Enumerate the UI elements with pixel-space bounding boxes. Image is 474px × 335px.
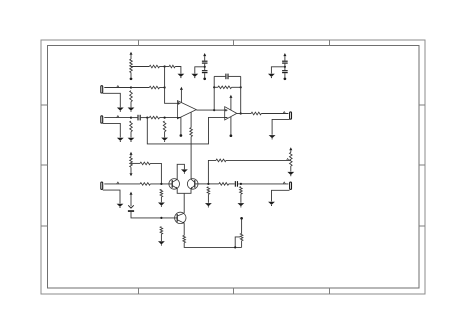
- wire: [160, 197, 162, 202]
- wire Q1 emitter: [177, 188, 184, 193]
- wire W1: [208, 160, 216, 184]
- node U2 out: [240, 112, 242, 114]
- net stub U2 V-: [230, 134, 233, 137]
- wire Q1 collector: [177, 164, 184, 179]
- sheet border inner: [48, 46, 420, 289]
- wire: [160, 87, 165, 89]
- net stub U1 V-: [180, 134, 183, 137]
- capacitor C8: [235, 181, 238, 187]
- wire: [229, 183, 235, 185]
- transistor Q1: [169, 179, 180, 190]
- node D: [164, 117, 166, 119]
- wire: [240, 76, 242, 113]
- U1 V- pin: [180, 117, 182, 134]
- capacitor C7 plate+: [128, 205, 134, 208]
- wire: [147, 117, 149, 119]
- wire: [204, 64, 206, 70]
- ground J3 sleeve: [269, 135, 276, 139]
- resistor R13/R14: [290, 153, 293, 167]
- resistor R22: [160, 227, 163, 235]
- op-amp U1: [177, 101, 196, 119]
- wire: [160, 234, 162, 241]
- resistor R19: [160, 189, 163, 197]
- net stub V- (R2): [130, 77, 133, 80]
- net stub V-: [284, 77, 287, 80]
- wire: [229, 75, 241, 77]
- net stub V-: [203, 77, 206, 80]
- resistor R5: [149, 65, 159, 68]
- U2 V- pin: [230, 117, 232, 135]
- J1 tip contact: [117, 86, 119, 88]
- wire emitter to pot: [184, 243, 241, 248]
- wire: [208, 183, 219, 185]
- ground J2 sleeve: [117, 138, 124, 142]
- wire Q2 emitter: [184, 189, 191, 194]
- power arrow U2 V+: [229, 95, 232, 98]
- node C: [146, 117, 148, 119]
- node C1-C2: [204, 66, 206, 68]
- wire: [214, 75, 225, 77]
- ground J1 sleeve: [117, 108, 124, 112]
- resistor R3: [130, 91, 133, 102]
- resistor R11: [218, 86, 232, 89]
- wire: [290, 166, 292, 172]
- wire: [131, 117, 137, 119]
- wire J5 sleeve: [272, 190, 290, 201]
- wire: [131, 87, 149, 89]
- resistor R4: [130, 121, 133, 132]
- resistor R6: [169, 65, 175, 68]
- wire row1 bias: [131, 66, 149, 68]
- J2 tip contact: [117, 116, 119, 118]
- node A: [164, 65, 166, 67]
- W1 contact mark: [287, 159, 289, 161]
- wire: [190, 112, 192, 127]
- wire to ground: [271, 67, 285, 74]
- wire: [238, 183, 288, 185]
- wire pot wiper: [235, 237, 240, 248]
- ground R20: [205, 203, 212, 207]
- ground Q1 collector: [181, 169, 188, 173]
- power arrow V+ (R1 top): [130, 52, 133, 55]
- wire: [160, 66, 165, 68]
- connector J3 (output jack): [290, 112, 292, 119]
- wire: [150, 163, 161, 184]
- ground J4 sleeve: [117, 204, 124, 208]
- wire: [241, 241, 243, 248]
- resistor R25: [216, 159, 226, 162]
- capacitor C6: [225, 74, 228, 80]
- power arrow V+ (R15): [130, 152, 133, 155]
- connector J1 (input jack 1): [101, 86, 103, 93]
- U1 -in mark: [177, 117, 180, 119]
- wire: [232, 86, 241, 88]
- wire J3 sleeve: [272, 119, 289, 134]
- wire: [204, 56, 206, 60]
- resistor R26: [219, 183, 229, 186]
- wire: [130, 73, 132, 78]
- node B: [164, 86, 166, 88]
- resistor R8: [149, 116, 159, 119]
- potentiometer R24: [240, 233, 243, 240]
- wire to Q2 collector: [190, 137, 192, 180]
- resistor R17: [140, 162, 150, 165]
- U1 +in mark: [177, 102, 180, 105]
- node Q1 base: [160, 183, 162, 185]
- power arrow V+ (R13): [289, 147, 292, 150]
- node C3-C4: [284, 66, 286, 68]
- wire: [290, 150, 292, 152]
- wire J2 tip: [104, 117, 131, 119]
- wire: [204, 73, 206, 77]
- transistor Q2: [187, 179, 198, 190]
- arrow R16 down: [130, 173, 133, 176]
- capacitor C3: [282, 61, 288, 64]
- wire to ground: [195, 67, 205, 74]
- wire: [241, 219, 243, 233]
- ground R4: [128, 138, 135, 142]
- wire feedback loop: [147, 117, 224, 143]
- wire J4 sleeve: [103, 190, 120, 203]
- connector J5 (jack 4): [290, 182, 292, 189]
- power arrow V+ (C1): [203, 53, 206, 56]
- power arrow U1 V+: [180, 87, 183, 90]
- J5 tip contact: [283, 182, 285, 184]
- power arrow V+ (C3): [283, 53, 286, 56]
- wire: [207, 194, 209, 203]
- resistor R20: [207, 187, 210, 195]
- ground R14: [287, 172, 294, 176]
- node U1 out: [213, 109, 215, 111]
- resistor R12: [251, 112, 261, 115]
- connector J4 (input jack 3): [101, 182, 103, 189]
- resistor R23: [183, 235, 186, 242]
- wire: [240, 194, 242, 203]
- wire emitters join: [183, 193, 185, 213]
- capacitor C1: [202, 61, 208, 64]
- resistor R18: [140, 183, 150, 186]
- U2 V+ pin: [230, 98, 232, 110]
- node J1-R junction: [130, 86, 132, 88]
- ground R9: [161, 138, 168, 142]
- wire: [130, 167, 132, 173]
- wire: [164, 132, 166, 138]
- U1 V+ pin: [180, 90, 182, 103]
- ground C3-C4: [268, 74, 275, 78]
- ground R21: [238, 203, 245, 207]
- wire: [130, 195, 132, 207]
- wire to -in: [160, 117, 178, 119]
- ground R3: [128, 108, 135, 112]
- wire to Q1 base: [150, 183, 172, 185]
- wire: [213, 76, 215, 110]
- node: [213, 86, 215, 88]
- wire: [130, 132, 132, 138]
- node Q3 base: [160, 217, 162, 219]
- ground J5 sleeve: [268, 202, 275, 206]
- connector J2 (input jack 2): [101, 116, 103, 123]
- wire row3 bias: [131, 162, 140, 164]
- wire J2 sleeve: [103, 123, 121, 137]
- wire: [131, 212, 177, 218]
- capacitor C2: [202, 70, 208, 73]
- J3 tip contact: [283, 112, 285, 114]
- wire Q2 base: [195, 183, 209, 185]
- U2 +in mark: [225, 109, 228, 111]
- ground R6: [178, 74, 185, 78]
- resistor R15/R16: [130, 157, 133, 168]
- wire: [130, 55, 132, 59]
- resistor R7: [149, 86, 159, 89]
- capacitor C4: [282, 70, 288, 73]
- wire: [261, 113, 288, 115]
- transistor Q3: [175, 212, 186, 223]
- node wiper: [234, 246, 236, 248]
- resistor R9: [163, 121, 166, 132]
- wire: [130, 102, 132, 108]
- U2 -in mark: [225, 117, 228, 119]
- net stub pot top: [240, 217, 243, 220]
- wire: [284, 73, 286, 77]
- resistor R21: [240, 187, 243, 195]
- node: [240, 86, 242, 88]
- ground R19: [158, 203, 165, 207]
- capacitor C5: [137, 115, 140, 121]
- wire: [175, 67, 181, 74]
- wire J4 tip: [104, 183, 140, 185]
- wire: [284, 56, 286, 60]
- wire to U2 +in: [214, 109, 225, 111]
- resistor R1/R2 divider: [130, 59, 133, 73]
- sheet border outer: [41, 40, 425, 294]
- node Q2 base: [207, 183, 209, 185]
- resistor R10: [190, 128, 193, 137]
- wire: [130, 155, 132, 157]
- node: [240, 183, 242, 185]
- wire U2 out: [237, 113, 251, 115]
- ground R22: [158, 241, 165, 245]
- wire: [165, 66, 170, 68]
- wire J1 sleeve: [103, 93, 121, 107]
- arrow up (C7 top): [130, 192, 133, 195]
- op-amp U2: [225, 107, 237, 120]
- J4 tip contact: [117, 182, 119, 184]
- wire J1 tip: [104, 87, 131, 89]
- wire node A to +in: [165, 67, 178, 104]
- wire: [284, 64, 286, 70]
- wire W1b: [226, 159, 291, 161]
- wire U1 out: [196, 109, 214, 111]
- capacitor C7 plate-: [128, 210, 134, 212]
- sheet zone ticks: [41, 40, 425, 294]
- wire Q3 emitter: [183, 223, 185, 235]
- wire: [214, 86, 218, 88]
- wire: [141, 117, 148, 119]
- node J2-R junction: [130, 117, 132, 119]
- ground C1-C2: [191, 74, 198, 78]
